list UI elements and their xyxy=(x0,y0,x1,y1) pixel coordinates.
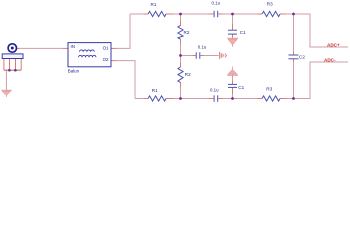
svg-text:0.1u: 0.1u xyxy=(212,1,221,6)
svg-text:C1: C1 xyxy=(240,30,246,35)
svg-text:R2: R2 xyxy=(184,30,190,35)
svg-text:0.1u: 0.1u xyxy=(198,44,207,49)
svg-text:R1: R1 xyxy=(151,2,157,7)
svg-text:R3: R3 xyxy=(267,2,273,7)
svg-text:ADC-: ADC- xyxy=(324,57,336,62)
svg-text:C2: C2 xyxy=(299,55,305,60)
svg-text:IN: IN xyxy=(71,44,75,49)
svg-text:C1: C1 xyxy=(238,85,244,90)
svg-text:O1: O1 xyxy=(103,45,109,50)
svg-text:ADC+: ADC+ xyxy=(327,42,340,47)
svg-text:O2: O2 xyxy=(103,57,109,62)
svg-text:0.1u: 0.1u xyxy=(210,87,219,92)
svg-text:R2: R2 xyxy=(185,72,191,77)
svg-text:R3: R3 xyxy=(266,86,272,91)
svg-text:R1: R1 xyxy=(152,88,158,93)
svg-text:Balun: Balun xyxy=(68,69,80,74)
